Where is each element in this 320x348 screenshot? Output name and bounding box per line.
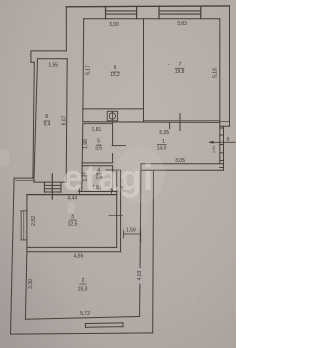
room3 bottom wall line2 [27,251,121,253]
svg-text:4,03: 4,03 [137,270,143,280]
left outer wall upper [65,7,67,51]
svg-text:3: 3 [71,214,74,220]
electrical symbol box [107,111,117,121]
svg-text:15,2: 15,2 [110,72,120,78]
svg-text:6: 6 [114,65,117,71]
room2 bottom inner wall [25,317,139,320]
hall floor band bottom line [141,169,224,171]
room8 door stroke [51,174,53,199]
dim ticks room4 bottom [79,189,81,194]
step wall left [31,51,66,62]
dim arrow duct [209,141,214,144]
corner lines top right [220,120,230,122]
door leaf room5 [112,145,125,147]
room8 bottom [34,181,66,183]
room3 bottom wall line1 [27,246,117,248]
window W2 room7 [158,7,160,19]
svg-text:3,83: 3,83 [177,21,187,27]
svg-text:19,3: 19,3 [78,287,88,293]
corridor top short wall [106,169,121,171]
underlines for room labels [44,68,185,284]
balcony room3 ticks [21,210,27,212]
room4 right wall [112,166,114,192]
svg-text:1: 1 [162,139,165,145]
floor plan background [0,0,236,348]
room4 top wall [82,165,113,167]
divider wall rooms 6/7 [143,19,145,122]
svg-text:1,55: 1,55 [48,63,58,69]
svg-text:1,81: 1,81 [92,127,102,133]
paper background [0,0,236,348]
outer top wall [66,5,229,8]
right inner wall room7 [219,19,221,122]
svg-text:12,5: 12,5 [68,221,78,227]
svg-text:5,17: 5,17 [86,65,92,75]
svg-text:3,30: 3,30 [28,279,34,289]
svg-text:8: 8 [45,114,48,120]
room5 right wall lower [112,154,114,163]
svg-text:5,18: 5,18 [213,68,219,78]
room2 bottom window rails [85,322,123,325]
room6 left inner wall [82,19,85,122]
right outer wall [229,6,231,126]
top wall inner line [84,18,220,20]
room5 bottom wall [82,162,113,164]
svg-text:1,59: 1,59 [126,227,136,233]
room4 bottom wall [79,191,117,193]
step lines below room8 [14,177,33,179]
rooms 5/4 left wall [82,124,83,192]
room8 loggia top [38,58,68,60]
svg-text:3,05: 3,05 [175,158,185,164]
hall floor band top line [141,163,224,165]
loggia outer left wall [33,62,34,178]
rooms 3/2 left wall [25,195,27,320]
hall top wall [83,121,220,124]
svg-text:3,5: 3,5 [95,146,102,152]
door tick small [169,123,171,129]
svg-text:2: 2 [82,278,85,284]
svg-text:4,56: 4,56 [74,253,84,259]
door threshold room3 [109,214,123,216]
svg-text:5: 5 [97,139,100,145]
corridor wall inner [116,170,118,247]
room6 bottom wall [83,108,144,110]
door stroke room7-hall [179,114,181,131]
room5 right wall upper [112,122,114,146]
svg-text:7: 7 [179,62,182,68]
svg-text:9,4: 9,4 [43,121,50,127]
balcony rails [20,211,22,240]
room3 top wall [27,194,117,196]
dim 1.59 line [123,233,140,235]
svg-text:1,94: 1,94 [212,146,216,153]
svg-text:B: B [226,136,229,141]
svg-text:6,07: 6,07 [62,115,68,125]
duct ladder left rail [219,121,221,163]
patch for 4.03 over wall [136,268,142,284]
left outer wall lower [11,178,15,334]
svg-text:5,72: 5,72 [80,311,90,317]
room5 top second line [83,123,113,125]
svg-text:19,8: 19,8 [175,69,185,75]
bottom outer wall [11,333,153,334]
svg-text:5,05: 5,05 [159,130,169,136]
svg-text:2,82: 2,82 [31,216,37,226]
room8 left inner [34,59,38,182]
duct rungs [220,127,224,129]
svg-text:1,98: 1,98 [83,139,89,149]
outer wall right lower [152,170,155,333]
svg-text:3,00: 3,00 [109,22,119,28]
corridor wall outer [120,170,122,252]
rooms 3/2 right inner wall [140,164,141,317]
window W1 room6 [105,7,107,19]
room8 right wall [66,59,67,182]
duct ladder right rail [223,126,225,170]
dim line duct [210,141,236,143]
svg-text:14,0: 14,0 [157,146,167,152]
room7 bottom faint line [144,120,220,122]
room8 window unit rails [43,182,45,192]
